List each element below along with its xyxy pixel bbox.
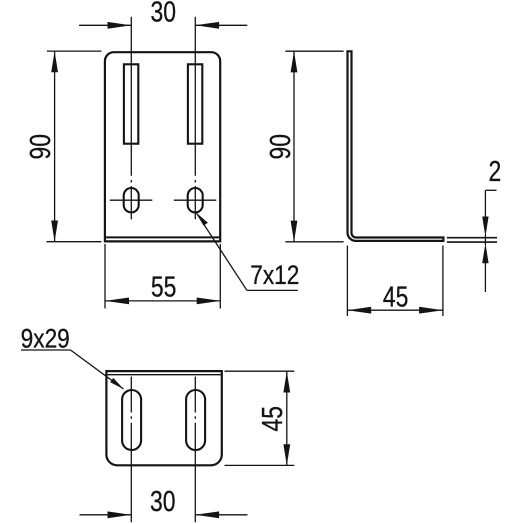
hole right horizontal centerline <box>174 199 217 201</box>
bottom view outline <box>106 371 221 465</box>
bottom view bend tangent line <box>106 374 221 376</box>
bottom centerline right <box>194 377 196 413</box>
dimension 30 top <box>79 24 131 26</box>
front hole right 7x12 <box>188 188 203 212</box>
front hole left 7x12 <box>124 188 139 212</box>
dimension 2 <box>447 237 497 239</box>
svg-text:45: 45 <box>383 280 408 313</box>
svg-text:45: 45 <box>256 406 289 431</box>
svg-text:90: 90 <box>23 134 56 159</box>
dimension 90 front <box>54 51 56 241</box>
front view bend line <box>105 236 220 238</box>
svg-text:9x29: 9x29 <box>21 324 70 354</box>
svg-text:2: 2 <box>489 154 502 187</box>
svg-text:30: 30 <box>150 0 175 28</box>
hole left horizontal centerline <box>110 199 153 201</box>
svg-text:55: 55 <box>151 270 176 303</box>
dimension 30 bottom <box>80 514 132 516</box>
leader 9x29 <box>21 349 71 351</box>
vertical centerline left <box>130 17 132 176</box>
front slot left <box>124 64 138 143</box>
bottom centerline left <box>130 377 132 413</box>
dimension 90 side <box>293 51 295 241</box>
front slot right <box>188 64 202 143</box>
leader 7x12 <box>196 213 247 290</box>
dimension 45 bottom view <box>225 370 295 372</box>
svg-text:7x12: 7x12 <box>250 260 299 290</box>
front view outline <box>105 52 220 241</box>
bottom slot left 9x29 <box>122 390 141 450</box>
svg-text:30: 30 <box>150 484 175 517</box>
side view L profile <box>348 51 444 241</box>
vertical centerline right <box>194 17 196 176</box>
bottom slot right 9x29 <box>186 390 205 450</box>
dimension 45 side <box>346 246 348 317</box>
svg-text:90: 90 <box>263 134 296 159</box>
dimension 55 <box>104 244 106 309</box>
